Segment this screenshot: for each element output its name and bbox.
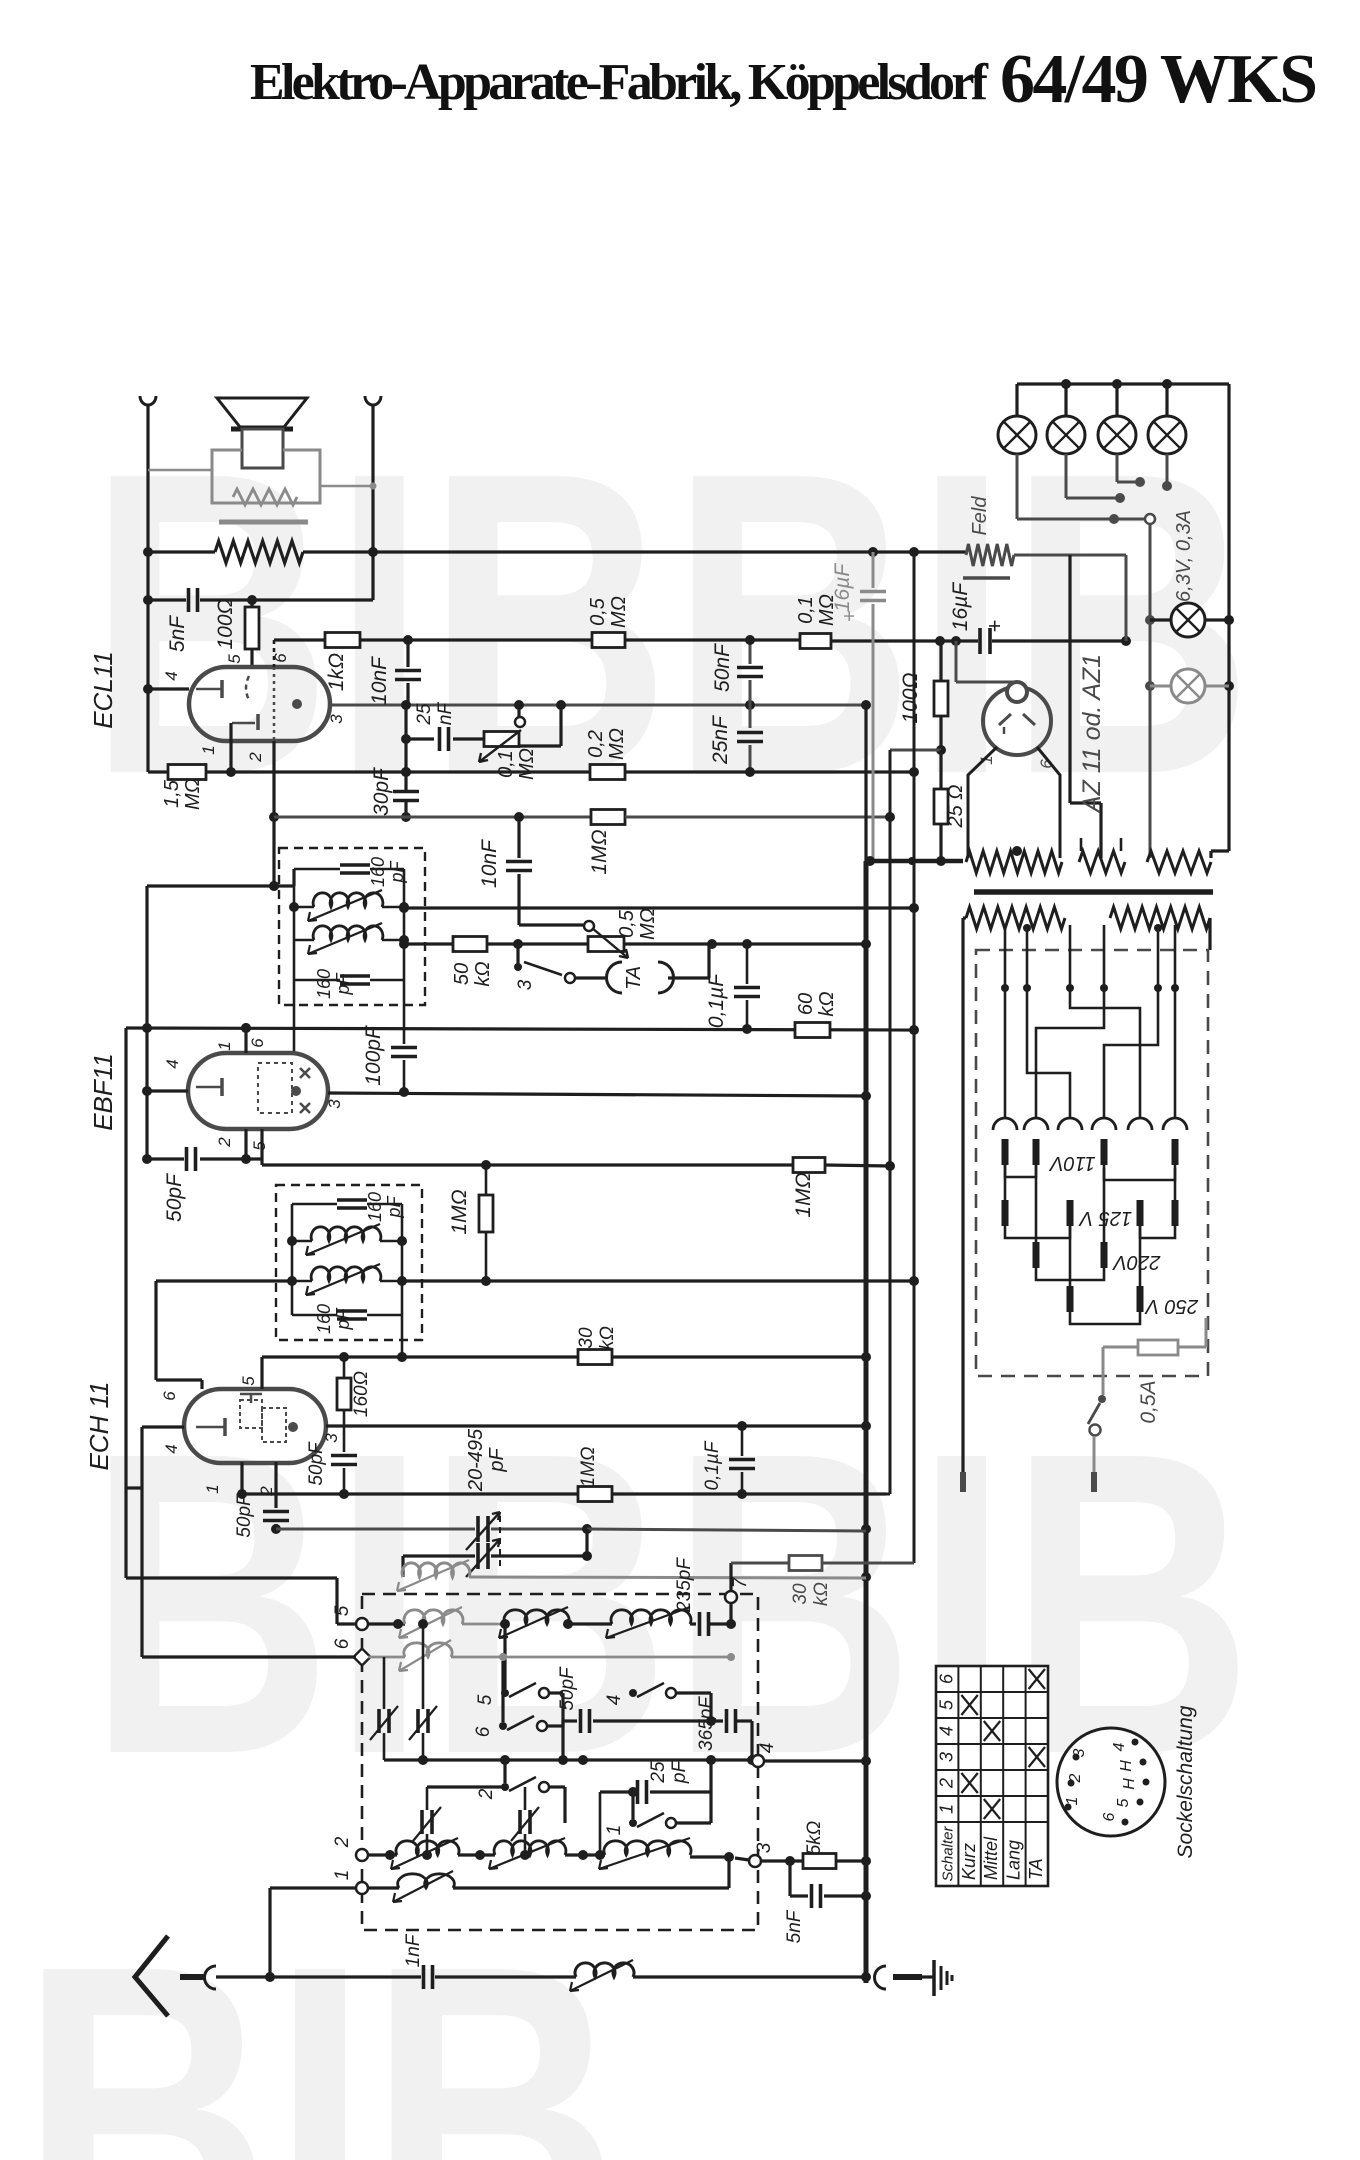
resistor 1MΩ vertical xyxy=(485,1165,488,1195)
svg-text:1: 1 xyxy=(1064,1797,1081,1806)
svg-text:3: 3 xyxy=(325,1099,344,1109)
tuner row B xyxy=(368,1656,405,1659)
svg-text:25 Ω: 25 Ω xyxy=(945,784,967,828)
svg-text:2: 2 xyxy=(1067,1773,1084,1783)
wire ECH pin2 down xyxy=(274,1462,277,1508)
svg-text:220V: 220V xyxy=(1112,1251,1161,1273)
svg-text:5: 5 xyxy=(475,1694,496,1705)
svg-text:4: 4 xyxy=(604,1695,625,1706)
svg-text:64/49 WKS: 64/49 WKS xyxy=(1000,41,1318,118)
svg-text:3: 3 xyxy=(754,1842,775,1853)
wire IF1 left down to EBF pin6 xyxy=(293,980,296,1053)
wire line y1357 (osc screen) xyxy=(262,1355,578,1358)
wire y944 cont xyxy=(487,942,588,945)
terminal 1 xyxy=(356,1882,368,1894)
svg-text:25pF: 25pF xyxy=(648,1760,690,1785)
voltage selector dashed box xyxy=(976,950,1208,1376)
svg-text:2: 2 xyxy=(246,752,265,763)
wire field box to rails xyxy=(148,469,212,472)
potentiometer 0,1MΩ xyxy=(484,732,519,747)
capacitor 50pF (osc grid) xyxy=(263,1510,289,1514)
bus B screen rail xyxy=(889,750,892,1494)
svg-text:6: 6 xyxy=(473,1726,494,1737)
wire ECL pin1 drop xyxy=(229,723,232,772)
svg-text:5kΩ: 5kΩ xyxy=(804,1821,825,1856)
speaker terminal right xyxy=(365,396,381,405)
svg-text:30pF: 30pF xyxy=(370,767,393,816)
trimmer 3 xyxy=(420,1810,424,1834)
wire line y1281 out xyxy=(402,1279,914,1282)
svg-text:5nF: 5nF xyxy=(166,615,189,652)
svg-text:1MΩ: 1MΩ xyxy=(578,1447,599,1488)
IF2 coil 2 xyxy=(292,1280,312,1283)
selector contact arcs xyxy=(993,1118,1017,1130)
speaker magnet bar xyxy=(219,520,308,525)
svg-text:7: 7 xyxy=(730,1576,751,1588)
svg-text:30kΩ: 30kΩ xyxy=(576,1326,618,1350)
resistor 1MΩ (grid leak) xyxy=(591,810,625,825)
tube ECL11 envelope xyxy=(189,667,330,741)
tube ECH11 internals xyxy=(223,1418,227,1436)
svg-text:1: 1 xyxy=(332,1870,353,1881)
selector feed wires xyxy=(1004,925,1007,988)
wire EBF pin2 down xyxy=(244,1129,247,1159)
tuner coil A1 (osc) xyxy=(404,1610,463,1624)
wire lamp2 lead xyxy=(1065,454,1068,498)
pilot lamp 6,3V xyxy=(1150,618,1171,621)
svg-text:1: 1 xyxy=(203,1484,222,1493)
resistor 30kΩ (osc anode) xyxy=(789,1556,822,1571)
svg-text:16µF: 16µF xyxy=(949,582,972,631)
svg-text:160Ω: 160Ω xyxy=(351,1371,372,1417)
wire to ant coil xyxy=(435,1975,576,1978)
svg-text:250 V: 250 V xyxy=(1144,1295,1199,1317)
wire lamp3 lead xyxy=(1116,454,1119,482)
svg-text:25nF: 25nF xyxy=(709,715,732,765)
dial lamp 1 xyxy=(1015,384,1018,416)
svg-text:50pF: 50pF xyxy=(557,1666,578,1711)
svg-text:3: 3 xyxy=(327,714,346,724)
svg-text:+: + xyxy=(839,610,861,622)
IF2 coil 1 xyxy=(292,1240,312,1243)
capacitor 16µF (second) xyxy=(978,628,982,654)
wire EBF pin5 down xyxy=(260,1129,263,1165)
tuner coil C2 xyxy=(494,1841,566,1855)
svg-text:50nF: 50nF xyxy=(711,643,734,692)
wire x406 grid chain xyxy=(404,705,407,790)
trimmer 4 xyxy=(518,1810,522,1834)
svg-text:0,5A: 0,5A xyxy=(1137,1380,1160,1423)
wire line y908 xyxy=(404,906,914,909)
svg-text:6: 6 xyxy=(332,1638,353,1649)
tuner coil B1 xyxy=(404,1643,452,1657)
wire y772 line xyxy=(206,770,590,773)
wire feed AZ11 filament xyxy=(955,641,958,682)
tube ECH11 envelope xyxy=(184,1389,326,1463)
svg-text:365pF: 365pF xyxy=(696,1696,717,1751)
wire ECL pin6 to 1k line xyxy=(273,640,276,667)
wire B+ top line y552 xyxy=(148,550,215,553)
svg-text:5nF: 5nF xyxy=(784,1909,805,1943)
svg-text:6: 6 xyxy=(1101,1812,1118,1821)
svg-text:TA: TA xyxy=(623,966,645,990)
wire ECH pin5 up xyxy=(260,1357,263,1389)
svg-text:0,1MΩ: 0,1MΩ xyxy=(495,748,538,780)
IF2 side rails xyxy=(291,1204,294,1315)
wire ECL pin4 xyxy=(148,687,189,690)
wire line y1028 (AVC/60k) xyxy=(126,1028,914,1030)
plug pins 125V xyxy=(1002,1200,1009,1226)
svg-text:2: 2 xyxy=(332,1836,353,1848)
loudspeaker cone xyxy=(217,398,307,427)
transformer core xyxy=(974,889,1213,895)
svg-text:6: 6 xyxy=(936,1673,956,1684)
wire Feld to rectifier xyxy=(1014,554,1126,557)
svg-text:5: 5 xyxy=(250,1141,269,1151)
svg-text:5: 5 xyxy=(239,1376,258,1386)
band switch 5 xyxy=(501,1689,509,1697)
capacitor 1nF xyxy=(422,1965,426,1989)
svg-text:4: 4 xyxy=(1111,1742,1128,1751)
wire ECH pin4 xyxy=(142,1425,184,1428)
rectifier tube AZ11 xyxy=(983,687,1051,755)
IF1 capacitor 160pF bottom xyxy=(340,974,370,978)
resistor 1MΩ (screen) xyxy=(793,1158,825,1173)
wire rail x147 (EBF section) xyxy=(145,886,148,1159)
svg-text:3: 3 xyxy=(1071,1748,1088,1757)
wire ECL pin2 drop xyxy=(272,741,275,886)
svg-text:100Ω: 100Ω xyxy=(899,672,922,723)
svg-text:3: 3 xyxy=(322,1433,341,1443)
svg-text:+: + xyxy=(982,620,1007,633)
trimmer 2 xyxy=(416,1709,420,1733)
wire into IF1 from y885 xyxy=(147,884,294,887)
tuner dashed box xyxy=(362,1594,758,1930)
capacitor 0,1µF xyxy=(746,944,749,984)
wire lamp bus top xyxy=(1017,382,1229,385)
resistor 1kΩ xyxy=(274,638,325,641)
wire sw5 input drop xyxy=(503,1628,506,1689)
wire y817 line xyxy=(274,816,591,819)
wire line y1760 xyxy=(384,1758,752,1761)
loudspeaker throat xyxy=(242,429,283,468)
wire rail x126 (AVC) xyxy=(124,1028,127,1578)
resistor 160Ω xyxy=(343,1357,346,1378)
capacitor 25nF (grid) xyxy=(406,737,434,740)
svg-text:1: 1 xyxy=(215,1041,234,1050)
band switch 2 xyxy=(501,1783,509,1791)
tuner coil C3 xyxy=(604,1841,691,1855)
tuning gang 2 xyxy=(403,1554,475,1557)
wire ECH pin1 down xyxy=(240,1462,243,1494)
svg-text:Elektro-Apparate-Fabrik, Köppe: Elektro-Apparate-Fabrik, Köppelsdorf xyxy=(250,54,989,111)
svg-text:100pF: 100pF xyxy=(362,1025,385,1086)
band switch 4 xyxy=(629,1689,637,1697)
bus C rail xyxy=(913,552,916,1563)
svg-text:16µF: 16µF xyxy=(831,563,854,612)
TA jack xyxy=(607,962,622,993)
svg-text:4: 4 xyxy=(162,671,181,680)
svg-text:2: 2 xyxy=(476,1788,497,1800)
pot wiper to plate line xyxy=(515,717,525,727)
svg-text:ECL11: ECL11 xyxy=(88,651,118,729)
wire antenna line xyxy=(216,1975,421,1978)
speaker terminal left xyxy=(140,396,156,405)
tuner row A xyxy=(368,1622,405,1625)
selector junction dots xyxy=(1001,984,1009,992)
wire line y1494 (osc anode) xyxy=(242,1492,578,1495)
pot right end up xyxy=(519,744,561,747)
wire lamp1 lead xyxy=(1016,454,1019,519)
svg-text:0,1µF: 0,1µF xyxy=(705,973,728,1028)
svg-text:1MΩ: 1MΩ xyxy=(588,829,611,874)
wire HV line y861 xyxy=(866,859,963,864)
svg-text:1nF: 1nF xyxy=(403,1933,424,1967)
capacitor 25pF xyxy=(600,1790,634,1793)
field coil box xyxy=(212,450,320,503)
resistor 0,5MΩ xyxy=(592,633,625,648)
wire IF2 right down xyxy=(401,1315,404,1357)
wire EBF pin4 xyxy=(147,1089,188,1092)
resistor 5kΩ xyxy=(761,1859,803,1862)
wire primary right stub xyxy=(1208,918,1211,950)
svg-text:5: 5 xyxy=(225,654,244,664)
svg-text:50pF: 50pF xyxy=(234,1493,255,1538)
plug pins 250V xyxy=(1067,1286,1074,1312)
svg-text:Sockelschaltung: Sockelschaltung xyxy=(1174,1705,1197,1858)
svg-text:1MΩ: 1MΩ xyxy=(792,1172,815,1217)
svg-text:100Ω: 100Ω xyxy=(214,598,237,649)
node 4 xyxy=(752,1755,764,1767)
dial lamp 4 xyxy=(1165,384,1168,416)
tuner coil C1 xyxy=(396,1841,459,1855)
transformer primary winding 2 xyxy=(1110,907,1210,929)
tuner coil D1 xyxy=(398,1874,455,1888)
resistor 0,2MΩ xyxy=(590,765,625,780)
svg-text:BIB: BIB xyxy=(20,1877,620,2160)
svg-text:1kΩ: 1kΩ xyxy=(325,653,348,691)
tuning gang link (dashed) xyxy=(499,1516,501,1566)
wire y772 to bus C xyxy=(625,770,914,773)
svg-text:6,3V, 0,3A: 6,3V, 0,3A xyxy=(1173,510,1195,602)
IF2 capacitor 160pF bottom xyxy=(337,1309,367,1313)
capacitor 100pF xyxy=(391,1046,417,1050)
capacitor 5nF (AVC) xyxy=(788,1861,791,1896)
resistor 100Ω (cathode) xyxy=(250,600,253,607)
resistor 30kΩ (screen) xyxy=(578,1350,612,1365)
tube ECL11 internals xyxy=(220,680,224,698)
svg-text:6: 6 xyxy=(248,1038,267,1048)
antenna symbol xyxy=(135,1936,168,2016)
wire right rail x373 xyxy=(371,404,374,600)
field winding resistor xyxy=(233,489,297,505)
wire ECL plate line y705 xyxy=(330,704,866,707)
svg-text:0,1µF: 0,1µF xyxy=(702,1440,723,1490)
potentiometer 0,5MΩ (volume) xyxy=(588,937,624,952)
svg-text:0,5MΩ: 0,5MΩ xyxy=(587,596,630,628)
svg-text:60kΩ: 60kΩ xyxy=(795,991,838,1016)
svg-text:4: 4 xyxy=(163,1059,182,1068)
svg-text:10nF: 10nF xyxy=(478,839,501,888)
svg-text:5: 5 xyxy=(332,1605,353,1616)
wire x1150 drop xyxy=(1149,524,1152,858)
wire bus B top corner xyxy=(890,749,941,752)
tube socket diagram xyxy=(1057,1728,1165,1836)
wire y641 to cap16 xyxy=(831,639,978,642)
terminal 6 xyxy=(354,1649,371,1666)
svg-text:110V: 110V xyxy=(1049,1152,1096,1174)
mains switch xyxy=(1102,1347,1105,1395)
svg-text:H: H xyxy=(1118,1760,1135,1772)
capacitor 50pF (osc fb) xyxy=(331,1454,357,1458)
wire y817 to bus B xyxy=(625,816,890,819)
wire coil to ground bus xyxy=(633,1975,866,1978)
svg-text:25nF: 25nF xyxy=(414,702,456,726)
wire left rail x148 xyxy=(146,404,149,772)
svg-text:3: 3 xyxy=(515,979,536,990)
switch 3 (TA) xyxy=(516,944,519,964)
antenna plug xyxy=(180,1974,205,1980)
wire wiper line xyxy=(519,923,583,926)
bus A main HT rail xyxy=(864,705,867,861)
svg-text:Schalter: Schalter xyxy=(939,1825,956,1881)
transformer primary winding 1 xyxy=(966,907,1065,929)
svg-text:1: 1 xyxy=(604,1825,625,1836)
svg-text:50kΩ: 50kΩ xyxy=(451,961,494,986)
fuse 0,5A xyxy=(1138,1340,1178,1355)
dial lamp 3 xyxy=(1115,384,1118,416)
wire y640 to right xyxy=(408,638,592,641)
svg-text:Mittel: Mittel xyxy=(981,1836,1001,1880)
IF1 side rails xyxy=(293,869,296,980)
wire line y944 xyxy=(404,942,453,945)
wire y640 cont xyxy=(625,638,800,641)
svg-text:H: H xyxy=(1121,1778,1138,1790)
capacitor 30pF xyxy=(393,790,419,794)
wire T6 feed xyxy=(142,1655,356,1658)
capacitor 235pF xyxy=(698,1612,702,1636)
band switch 6 xyxy=(499,1722,507,1730)
tuning gang 1 xyxy=(276,1528,475,1531)
spare lamp (gray) xyxy=(1150,685,1171,688)
capacitor 5nF xyxy=(187,588,191,612)
wire line y1165 xyxy=(262,1163,486,1166)
svg-text:Feld: Feld xyxy=(969,496,991,536)
tuner row 1 xyxy=(368,1886,399,1889)
trimmer 1 xyxy=(377,1709,381,1733)
wire primary left rail xyxy=(963,916,966,919)
selector weave wires xyxy=(1004,988,1007,1118)
IF1 coil 1 xyxy=(294,906,314,909)
svg-text:TA: TA xyxy=(1026,1858,1046,1880)
field coil Feld resistor xyxy=(966,544,1014,566)
terminal 2 xyxy=(356,1849,368,1861)
capacitor 10nF (AVC) xyxy=(517,817,520,858)
svg-text:1: 1 xyxy=(936,1804,956,1814)
svg-text:1MΩ: 1MΩ xyxy=(448,1189,471,1234)
wire EBF pin1 up xyxy=(244,1028,247,1053)
oscillator coil xyxy=(401,1556,404,1577)
tube EBF11 envelope xyxy=(188,1053,328,1129)
tuner coil A2 xyxy=(504,1610,569,1624)
resistor 25Ω xyxy=(939,750,942,789)
resistor 60kΩ xyxy=(795,1023,830,1038)
wire antenna to T1 xyxy=(268,1888,271,1977)
antenna coil xyxy=(575,1963,634,1977)
wire y600 with junctions xyxy=(148,598,186,601)
transformer 6,3V winding xyxy=(1147,851,1211,873)
capacitor 50pF (bandswitch) xyxy=(563,1719,577,1722)
tuner row 2 xyxy=(368,1853,397,1856)
resistor 1,5MΩ xyxy=(148,770,168,773)
resistor 100Ω (hum) xyxy=(939,641,942,681)
IF2 capacitor 160pF top xyxy=(337,1198,367,1202)
svg-text:4: 4 xyxy=(162,1444,181,1453)
svg-text:50pF: 50pF xyxy=(306,1441,327,1486)
tuner coil A3 xyxy=(611,1610,691,1624)
capacitor 25nF (second) xyxy=(749,705,752,728)
capacitor 50nF xyxy=(749,640,752,664)
tube EBF11 internals xyxy=(220,1078,224,1096)
transformer rect heater winding xyxy=(1079,851,1125,873)
wire AZ plate leads xyxy=(968,747,997,858)
capacitor 365pF xyxy=(725,1709,729,1733)
wire y1494 to bus B xyxy=(612,1492,886,1495)
wire switch join xyxy=(561,1693,564,1726)
wire T5 feed xyxy=(335,1578,338,1624)
svg-text:10nF: 10nF xyxy=(368,656,391,705)
svg-text:235pF: 235pF xyxy=(674,1557,695,1613)
svg-text:EBF11: EBF11 xyxy=(88,1053,118,1131)
ground symbol xyxy=(932,1960,936,1996)
IF1 coil 2 xyxy=(294,939,314,942)
wire right rail x1229 xyxy=(1227,384,1230,851)
band switch table (Schalter) xyxy=(936,1666,1048,1886)
wire ECH plate line y1426 xyxy=(326,1424,866,1427)
capacitor 50pF (EBF) xyxy=(185,1147,189,1171)
wire IF1 right down xyxy=(403,980,406,1044)
svg-text:30kΩ: 30kΩ xyxy=(790,1582,832,1606)
wire sw6 input xyxy=(501,1661,504,1722)
ground plug xyxy=(875,1966,887,1989)
svg-text:0,2MΩ: 0,2MΩ xyxy=(585,728,628,760)
resistor 50kΩ xyxy=(453,937,487,952)
transformer HV winding xyxy=(966,851,1062,873)
svg-text:ECH 11: ECH 11 xyxy=(84,1381,114,1470)
plug pins 220V xyxy=(1033,1242,1040,1268)
wire EBF plate line xyxy=(328,1093,866,1096)
svg-text:2: 2 xyxy=(215,1137,234,1148)
IF1 capacitor 160pF top xyxy=(340,863,370,867)
svg-text:4: 4 xyxy=(757,1743,778,1754)
resistor 1MΩ (osc grid) xyxy=(578,1487,612,1502)
svg-text:4: 4 xyxy=(936,1726,956,1736)
output transformer primary T1 xyxy=(215,541,303,563)
capacitor 10nF (anode) xyxy=(406,640,409,667)
svg-text:AZ 11 od. AZ1: AZ 11 od. AZ1 xyxy=(1078,654,1106,814)
wire lamp4 lead xyxy=(1166,454,1169,486)
wire ECH pin6 up xyxy=(200,1380,203,1389)
resistor 0,1MΩ xyxy=(800,634,831,649)
svg-text:Lang: Lang xyxy=(1004,1840,1024,1880)
svg-text:1,5MΩ: 1,5MΩ xyxy=(161,778,204,810)
capacitor 0,1µF (osc) xyxy=(741,1426,744,1456)
capacitor 16µF (first) xyxy=(872,552,875,588)
band switch 1 xyxy=(629,1819,637,1827)
svg-text:Kurz: Kurz xyxy=(959,1843,979,1880)
dial lamp 2 xyxy=(1064,384,1067,416)
plug pins 110V xyxy=(1002,1139,1009,1165)
